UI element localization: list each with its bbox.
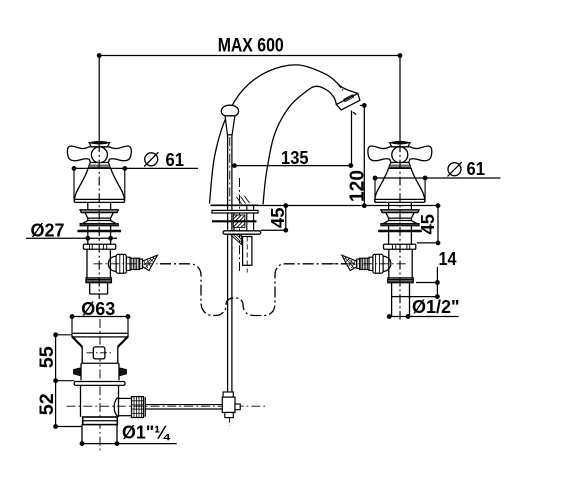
hose end ring [140, 259, 143, 268]
ring bar C [78, 230, 121, 232]
dimension 120 line [360, 104, 364, 106]
washer plate [74, 382, 125, 386]
dimension diameter 27 [26, 237, 117, 239]
weld collar bulge [108, 256, 116, 271]
svg-text:135: 135 [281, 148, 309, 168]
mounting nut hatched block [233, 215, 245, 227]
bell skirt [75, 168, 125, 202]
spout outlet inner slot [344, 95, 354, 102]
dimension diameter 61 left [74, 167, 198, 169]
handle hub circle [91, 147, 107, 163]
hex collar [126, 257, 130, 270]
right valve supply pipe [392, 283, 410, 317]
svg-text:MAX 600: MAX 600 [218, 35, 284, 56]
dimension MAX 600 line [99, 56, 400, 142]
svg-text:45: 45 [418, 214, 438, 235]
fitting axis dash-dot [94, 263, 173, 265]
basin wavy line [160, 264, 346, 316]
base flange D [83, 244, 115, 249]
left valve centerline [98, 143, 100, 299]
dimension 55 [55, 335, 57, 427]
clevis bottom cap [225, 413, 234, 418]
deck reference line [258, 205, 438, 207]
dimension 45 right [437, 206, 439, 243]
svg-text:Ø1"¼: Ø1"¼ [122, 422, 170, 443]
svg-text:61: 61 [166, 150, 185, 170]
clevis side screw [235, 404, 240, 410]
clamp screw right [119, 368, 127, 376]
braided hose cone [143, 255, 158, 270]
dimension 135 line [235, 165, 351, 167]
drain flange taper sides [72, 337, 82, 347]
handle neck [88, 163, 110, 169]
tail tube [243, 237, 252, 266]
svg-text:45: 45 [268, 208, 288, 229]
hatched wedge [230, 234, 241, 244]
svg-text:Ø1/2": Ø1/2" [412, 297, 460, 317]
tee outlet [119, 397, 132, 399]
spout base hatch ticks [237, 196, 250, 204]
right valve centerline [399, 143, 401, 320]
ring plate A [80, 210, 118, 213]
pop-up linkage horizontal centerline [67, 405, 266, 407]
clamp screw left [74, 368, 82, 376]
spool section [83, 213, 116, 224]
drain upper cup [81, 347, 83, 363]
clevis top cap [223, 392, 233, 397]
dimension diameter 61 right [375, 177, 500, 179]
svg-text:52: 52 [36, 393, 58, 415]
drain centerline [99, 319, 101, 452]
lozenge flange [223, 231, 261, 234]
drain lower body [80, 385, 82, 417]
spout outer curve [210, 65, 358, 204]
dimension MAX 600 dots [97, 53, 102, 58]
drain group [36, 299, 265, 452]
pop-up rod centerline [229, 137, 231, 203]
mounting plate 1 [212, 210, 258, 213]
dimension 135 extension [351, 111, 353, 166]
valve body [86, 249, 88, 278]
left valve body group [67, 141, 172, 282]
dimension half inch [389, 316, 458, 318]
spout centerline [239, 178, 241, 273]
handle arms [67, 146, 131, 163]
left valve supply pipe [90, 283, 108, 294]
spout outlet axis dashes [338, 84, 344, 92]
cartridge neck [87, 202, 89, 209]
pop-up rod [227, 135, 229, 392]
hex nut [116, 254, 126, 273]
ring plate B [80, 223, 118, 226]
cartridge tube sides [87, 226, 89, 244]
knurled nut [132, 397, 144, 418]
dimension 14 [436, 267, 438, 297]
spout base bottom edge [211, 204, 259, 206]
handle top stub [89, 143, 109, 147]
svg-text:Ø27: Ø27 [31, 221, 65, 241]
clevis tail dash [229, 418, 231, 426]
bottom tube [81, 425, 83, 444]
mounting plate 2 [212, 220, 257, 222]
svg-text:55: 55 [36, 346, 58, 368]
horizontal rod [145, 404, 222, 406]
drain square [93, 347, 105, 359]
drain flange plate [72, 333, 128, 337]
threaded nipple [130, 258, 139, 269]
spout outlet cup [336, 93, 360, 110]
svg-text:120: 120 [347, 170, 369, 202]
coupling band [83, 417, 118, 425]
pop-up lever knob [221, 105, 238, 116]
svg-text:14: 14 [439, 249, 457, 269]
svg-text:61: 61 [467, 159, 486, 179]
dimension 1 1/4 inch [82, 443, 177, 445]
right valve body group (mirrored) [327, 141, 432, 282]
tail tube centerline [246, 237, 248, 273]
pop-up lever stem [225, 116, 235, 135]
spout shank lines [234, 205, 254, 231]
dimension 45 center [285, 206, 287, 231]
spout inner curve [263, 86, 336, 204]
body shoulder [86, 278, 111, 283]
clevis body [222, 397, 235, 412]
